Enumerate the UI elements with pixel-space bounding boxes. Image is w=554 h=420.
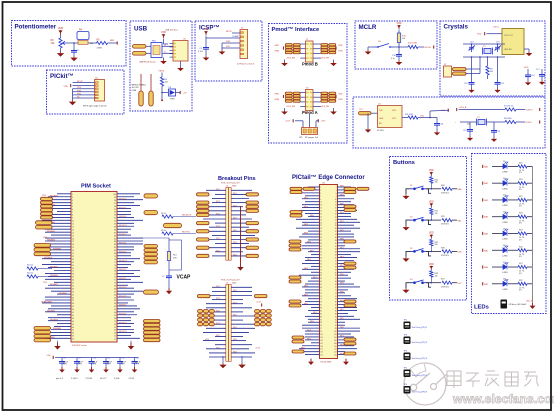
wire J14 left pin 11 [305,201,320,203]
pin stub J7-4 [306,57,309,58]
pin stub U2-4 [170,53,174,55]
wire J4 left 15 [215,344,226,346]
wire PICkit VDD [73,85,95,87]
wire J14 left pin 97 [302,327,320,329]
svg-text:+3V3_A: +3V3_A [459,106,467,109]
svg-text:D8: D8 [503,279,505,281]
node Y1 bottom [487,56,489,58]
LED D1 [503,162,508,169]
svg-text:48: 48 [72,333,74,335]
wire J14 right pin 106 [338,339,355,341]
wire PIM left pin 15 [51,234,71,236]
wire PIM left pin 16 [45,237,71,239]
wire VDD to R10 [398,30,400,34]
svg-text:TP5: TP5 [404,368,408,370]
node C15 top [497,43,499,45]
svg-text:RC5: RC5 [216,347,220,349]
wire PIM right pin 34 [117,290,143,292]
wire PIM left pin 34 [51,290,71,292]
pad J14 left 14 [292,340,304,343]
pad J14 left 8 [289,248,301,251]
ground pot [57,52,64,57]
svg-text:D7: D7 [503,262,505,264]
wire S5 to node [394,46,399,48]
svg-text:75: 75 [320,296,322,298]
wire J4 left 1 [212,286,226,288]
pad PIM left C1 [34,244,51,248]
svg-text:67: 67 [320,284,322,286]
pad PIM right C2 [144,249,158,252]
wire J14 left pin 75 [302,295,320,297]
wire J14 right pin 94 [338,321,346,323]
power arrow C8 [59,367,65,373]
pad PIM right E4 [144,331,161,334]
wire shield 2 [150,74,152,91]
power arrow J3 [237,264,244,271]
crystal Y2 [477,119,487,126]
wire J14 gnd right [345,359,347,361]
svg-text:107: 107 [320,343,323,345]
pad J4 right c1r3 [255,318,260,321]
svg-text:VDD: VDD [397,23,402,25]
wire J3 left 4 [212,202,226,204]
wire gnd Pmod B right [333,60,335,62]
wire Pmod B right 1 [313,43,321,45]
testpoint shield 2 [149,91,153,106]
wire J14 right pin 36 [338,236,355,238]
svg-text:RE2: RE2 [307,339,311,341]
svg-text:D-: D- [164,44,166,46]
wire J14 left pin 105 [305,339,320,341]
wire cap C11 drop [105,357,107,359]
pad Pmod B L1 r2 [285,46,292,48]
pad PIM right C4 [144,257,158,260]
section box Crystals [440,21,545,96]
LED D7 [503,262,508,269]
wire PIM right pin 41 [117,311,134,313]
wire Y1 to R9 [487,57,489,66]
svg-text:83: 83 [320,308,322,310]
wire R30 to node [430,183,432,189]
ground Pmod A right [330,110,337,115]
svg-text:X7R: X7R [121,364,125,366]
pad Pmod B R2 r2 [329,46,336,48]
pad J3 left 10 [197,254,210,257]
svg-text:CLAMP: CLAMP [232,35,240,38]
svg-text:RB6/AN0: RB6/AN0 [47,239,55,242]
svg-text:40: 40 [72,309,74,311]
section box Pmod Interface [269,24,348,144]
wire PIM right pin 14 [117,231,128,233]
capacitor C11 [103,359,109,365]
svg-text:470R 4%: 470R 4% [441,255,449,257]
connector J2 xtal [444,66,452,77]
wire jumper left drop [302,121,304,128]
pad J14 right 8 [344,266,356,269]
wire VCAP right leg [181,240,183,270]
svg-text:L-RED: L-RED [502,222,508,224]
svg-text:POS, On-Pmods-On?: POS, On-Pmods-On? [221,280,240,282]
wire C16 gnd [398,58,400,60]
svg-text:46: 46 [335,252,337,254]
ground USB filter [160,60,167,65]
wire J3 right 14 [231,243,249,245]
switch S1 right bracket [426,189,431,194]
pad Pmod B R1 r3 [321,49,328,51]
wire C19 drop [469,122,471,127]
resistor R22 [518,282,527,285]
wire J3 bus down [240,206,242,264]
ground C20 [491,138,497,142]
pad Pmod B L2 r4 [293,51,300,53]
svg-text:62: 62 [335,275,337,277]
svg-text:68: 68 [335,284,337,286]
svg-text:VCAP: VCAP [177,275,192,281]
wire cap C12 drop [119,357,121,359]
svg-text:C13: C13 [136,357,140,359]
wire Y2 left [460,121,477,123]
pin LED net 7 [482,265,484,268]
wire J14 left pin 17 [299,210,320,212]
power arrow C13 [132,367,138,373]
svg-text:RC9: RC9 [216,226,220,228]
wire Pmod A right 1 [313,92,321,94]
pad J14 left 13 [292,336,304,339]
wire filter gnd [163,58,165,60]
svg-text:52: 52 [114,336,116,338]
wire J14 right pin 24 [338,218,358,220]
svg-text:MCLR: MCLR [226,31,232,33]
switch S4 left bracket [406,283,412,289]
ground U2 [177,67,184,72]
resistor R2 pim [162,232,173,235]
svg-text:57: 57 [114,321,116,323]
pad J3 right 2 [246,201,259,204]
resistor R19 [518,232,527,235]
pad J4 right c3r1 [266,310,271,313]
wire J4 left 9 [203,319,226,321]
wire LED 3 in [492,199,503,201]
wire X2 gnd drop [528,49,530,52]
pad J3 left 7 [197,230,210,233]
capacitor C10 [469,80,475,86]
pad J4 left c2r2 [203,314,208,317]
svg-text:PICtail 30Pin: PICtail 30Pin [321,361,332,364]
svg-text:RD5/IC1: RD5/IC1 [119,207,126,209]
wire filter to U2 b [162,52,173,54]
svg-text:RC2: RC2 [216,238,220,240]
svg-text:33: 33 [320,234,322,236]
wire LED 4 to bus [527,216,533,218]
svg-text:4: 4 [72,203,73,205]
crystal Y1 [483,48,493,55]
pad PIM right E1 [144,320,161,323]
svg-text:L-RED: L-RED [502,239,508,241]
wire MCLR drop [221,43,223,50]
wire Pmod B right 3 [313,52,321,54]
diode D8 [169,89,176,96]
svg-text:72: 72 [114,277,116,279]
wire PIM right pin 19 [117,246,134,248]
wire PIM right pin 6 [117,208,131,210]
resistor R14 vcap [167,252,170,261]
wire PIM left pin 30 [45,278,71,280]
wire J3 right 10 [231,226,249,228]
svg-text:38: 38 [72,303,74,305]
pad USB D+ [133,52,147,56]
capacitor C13 [132,359,138,365]
switch S4 [412,280,427,284]
svg-text:25: 25 [72,265,74,267]
svg-text:3: 3 [320,190,321,192]
svg-text:RF1: RF1 [340,247,344,249]
svg-text:10: 10 [72,221,74,223]
svg-text:15: 15 [72,235,74,237]
svg-text:21: 21 [320,216,322,218]
svg-text:RD3: RD3 [233,242,237,244]
svg-text:104: 104 [334,337,337,339]
pin LED net 4 [482,215,484,218]
svg-text:4: 4 [336,190,337,192]
pin stub J5-4 [241,45,244,47]
svg-text:46: 46 [72,327,74,329]
wire J4 right 5 [231,303,243,305]
wire VDD down ICSP [205,36,207,46]
wire C18 gnd [436,127,438,131]
wire LED 8 in [492,283,503,285]
svg-text:C20: C20 [497,131,501,133]
svg-text:RC0: RC0 [216,189,220,191]
svg-text:Crystals: Crystals [444,24,469,31]
wire J14 left pin 23 [296,218,320,220]
wire J14 left pin 93 [308,321,320,323]
svg-text:0.1uF: 0.1uF [198,51,204,53]
svg-text:RD9/IC1: RD9/IC1 [119,278,126,280]
pad PIM left D4 [34,339,51,342]
wire J14 right pin 86 [338,309,358,311]
wire J4 left 11 [206,327,226,329]
svg-text:34: 34 [72,291,74,293]
pad J14 right 13 [344,352,356,355]
pad Pmod B R2 r3 [329,49,336,51]
node S2 [431,219,433,221]
pad Pmod A R2 r4 [329,100,336,102]
pad J3 left 8 [197,238,210,241]
svg-text:+3V3_PM: +3V3_PM [286,58,295,60]
wire LED 7 mid [508,266,518,268]
component icon LED note [501,300,508,309]
wire J14 right pin 18 [338,210,358,212]
resistor R32 pullup [430,239,433,246]
pin stub J11-5 [95,94,98,96]
ground C6 [70,56,77,61]
svg-text:82: 82 [335,305,337,307]
svg-text:RC6: RC6 [216,214,220,216]
pad J4 right c2r1 [260,310,265,313]
wire PIM left pin 7 [57,211,71,213]
svg-text:TP3: TP3 [404,335,408,337]
wire MCLR to J5 [232,32,240,34]
pad Pmod B L2 r3 [293,49,300,51]
ground J4 right [238,363,245,368]
wire PIM left pin 22 [45,255,71,257]
wire J3 right 6 [231,210,246,212]
wire gnd Pmod B left [284,60,286,62]
svg-text:27: 27 [320,225,322,227]
testpoint TP6 icon [404,386,411,394]
wire PIM left pin 45 [57,323,71,325]
wire J14 left pin 69 [302,286,320,288]
svg-text:81: 81 [320,305,322,307]
svg-text:VDD: VDD [58,26,64,30]
ground U1 input [365,128,372,133]
wire PIM right pin 21 [117,252,131,254]
wire Pmod B left 2 [300,48,305,50]
wire R10 to node [398,43,400,53]
wire wiper to R5 [66,42,97,44]
svg-text:55: 55 [114,327,116,329]
pad J4 left single [198,295,211,298]
svg-text:RB5/AN1: RB5/AN1 [50,265,58,268]
svg-text:74: 74 [114,271,116,273]
svg-text:to PICkit 3 or ICD 3: to PICkit 3 or ICD 3 [237,63,255,66]
svg-text:VDD OUT: VDD OUT [504,35,514,37]
pad Pmod A R2 r1 [329,92,336,94]
node pot wiper [73,42,75,44]
wire PICkit PGC [73,94,95,96]
svg-text:RD0/IC0: RD0/IC0 [119,252,126,254]
svg-text:VDD: VDD [43,237,48,239]
svg-text:470R 4%: 470R 4% [441,192,449,194]
wire J4 right 11 [231,327,255,329]
wire J14 right pin 112 [338,348,358,350]
wire J14 left pin 63 [311,277,320,279]
capacitor C12 [117,359,123,365]
svg-text:22: 22 [335,216,337,218]
svg-text:102: 102 [334,334,337,336]
svg-text:41: 41 [320,246,322,248]
svg-text:RF8: RF8 [340,327,344,329]
pad Pmod A L1 r1 [285,92,292,94]
wire PIM left pin 47 [51,329,71,331]
svg-text:22: 22 [72,256,74,258]
pin LED net 5 [482,232,484,235]
svg-text:VDD: VDD [477,34,482,36]
pin LED net 2 [482,182,484,185]
svg-text:RE7: RE7 [304,294,308,296]
svg-text:43: 43 [320,249,322,251]
node osc out [429,117,431,119]
svg-text:PIM Socket: PIM Socket [81,184,111,190]
pad PIM left B2 [36,225,53,229]
pad J14 right 12 [344,342,356,345]
svg-text:RD3: RD3 [233,339,237,341]
svg-text:VDD: VDD [392,110,397,112]
svg-text:RC6: RC6 [216,311,220,313]
pad Pmod A L2 r1 [293,92,300,94]
wire J14 left pin 37 [308,239,320,241]
svg-text:RD4/IC0: RD4/IC0 [119,322,126,324]
svg-text:14: 14 [72,232,74,234]
wire J14 right pin 42 [338,245,346,247]
svg-text:RE9: RE9 [307,330,311,332]
svg-text:RE9: RE9 [307,242,311,244]
wire PIM left pin 1 [57,193,71,195]
pad PIM left D3 [34,335,51,338]
wire J3 right 3 [231,198,249,200]
wire J3 left 5 [206,206,226,208]
svg-text:0.1u: 0.1u [391,58,395,60]
ground C10 [468,89,474,93]
svg-text:100: 100 [113,194,116,196]
svg-text:86: 86 [114,235,116,237]
wire LED 3 to bus [527,199,533,201]
svg-text:OSC: OSC [420,115,425,117]
svg-text:63: 63 [320,278,322,280]
svg-text:59: 59 [320,272,322,274]
svg-text:C10: C10 [93,357,97,359]
svg-text:ICSP™: ICSP™ [199,25,220,32]
wire C20 drop [493,122,495,128]
pad J14 left 4 [290,211,302,214]
pad J3 left 2 [197,201,210,204]
ground C1 [203,56,210,61]
wire J14 right pin 82 [338,304,352,306]
resistor R18 [518,215,527,218]
svg-text:111: 111 [320,349,323,351]
svg-text:RE0: RE0 [304,303,308,305]
pad J14 left 2 [303,187,315,190]
section box Potentiometer [12,21,127,67]
svg-text:80: 80 [114,253,116,255]
wire PIM right pin 36 [117,296,131,298]
svg-text:RE1: RE1 [313,277,317,279]
wire node to R12 [399,46,408,48]
ground S1 [402,194,409,199]
pin +1V2 [292,119,294,122]
svg-text:108: 108 [334,343,337,345]
svg-text:84: 84 [335,308,337,310]
wire J4 left 2 [212,290,226,292]
svg-text:RC3: RC3 [216,201,220,203]
svg-text:53: 53 [320,263,322,265]
svg-text:R11 33R: R11 33R [405,114,413,116]
pad J14 right 2 [357,187,369,190]
wire LED 4 mid [508,216,518,218]
svg-text:99: 99 [320,331,322,333]
switch S3 [412,249,427,253]
wire C20 gnd [493,134,495,137]
wire J14 right pin 90 [338,315,355,317]
svg-text:RF6: RF6 [340,203,344,205]
wire X2 gnd [524,48,529,50]
svg-text:44: 44 [335,249,337,251]
wire LED 8 mid [508,283,518,285]
svg-text:30: 30 [335,228,337,230]
pad Pmod A L2 r2 [293,95,300,97]
wire to D8 [162,92,168,94]
svg-text:25: 25 [320,222,322,224]
wire J14 right pin 44 [338,248,361,250]
pin stub J11-2 [95,85,98,87]
svg-text:69: 69 [320,287,322,289]
wire J4 gnd right [241,356,243,363]
IC U1 oscillator buffer [378,106,403,128]
pad PIM right E2 [144,323,161,326]
pad J3 left 6 [197,222,210,225]
wire cap C13 gnd [134,365,136,367]
wire J2 b out [466,73,480,75]
